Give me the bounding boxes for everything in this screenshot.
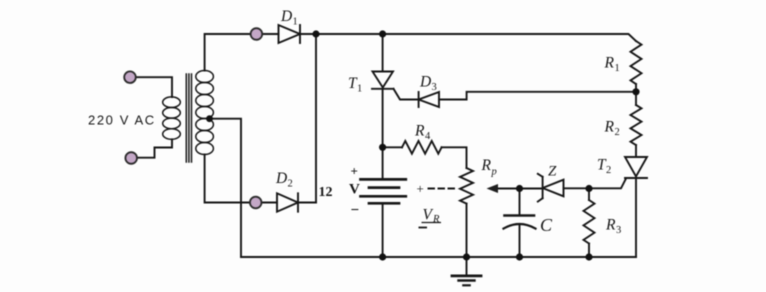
wire D3 anode to R1-R2 junction (439, 92, 636, 100)
label D2 (275, 170, 293, 190)
label 12 V battery (319, 164, 361, 219)
svg-text:2: 2 (615, 127, 620, 138)
svg-text:4: 4 (425, 131, 431, 142)
wire secondary bottom to D2 anode node (205, 155, 250, 203)
wire D2 node to anode (262, 202, 278, 204)
terminal node AC bottom (125, 152, 137, 164)
junction node rail C (516, 253, 523, 260)
svg-text:+: + (351, 164, 358, 179)
potentiometer wiper dashed line and plus (429, 188, 455, 190)
resistor R1 (631, 41, 642, 84)
label R3 (605, 217, 621, 237)
wire primary top terminal to winding (136, 77, 172, 97)
terminal node AC top (124, 71, 136, 83)
wire top rail from transformer secondary top to D1 anode (205, 34, 279, 71)
svg-text:1: 1 (357, 84, 362, 95)
capacitor C (504, 216, 536, 229)
svg-text:12: 12 (319, 185, 333, 200)
wire T1 anode vertical from top rail (382, 34, 384, 72)
wire C bottom stem (519, 224, 521, 257)
node D2 anode (250, 197, 262, 209)
junction node rail battery (379, 253, 386, 260)
wire T1 gate to D3 cathode (394, 89, 419, 100)
svg-text:R: R (604, 55, 615, 72)
svg-text:p: p (491, 167, 497, 178)
label D3 (419, 74, 437, 94)
label D1 (280, 8, 298, 28)
svg-text:C: C (540, 215, 553, 235)
transformer primary winding (163, 97, 181, 139)
wire battery minus down to bottom rail (382, 205, 384, 257)
svg-text:V: V (423, 207, 434, 224)
node D1 anode (251, 28, 263, 40)
junction node C top (516, 185, 523, 192)
label R4 (414, 123, 431, 143)
label T2 (597, 157, 611, 177)
wire R2 bottom to T2 anode (635, 145, 637, 157)
wire T2 cathode down to bottom rail (635, 178, 637, 257)
svg-text:Z: Z (548, 164, 557, 180)
wire R3 bottom stem (588, 244, 590, 258)
wire transformer center tap to bottom rail (210, 119, 242, 257)
wire top rail from D1 cathode to R1 top (300, 34, 636, 41)
transformer core (186, 74, 191, 162)
junction node rail R3 (585, 253, 592, 260)
junction node top rail T1 (379, 30, 386, 37)
label VR minus (419, 227, 428, 229)
svg-text:R: R (414, 123, 425, 140)
junction node R4 tap (379, 144, 386, 151)
resistor R3 (584, 200, 595, 243)
wire battery tap to R4 left (383, 146, 402, 148)
svg-text:2: 2 (606, 165, 611, 176)
svg-text:3: 3 (616, 225, 621, 236)
wire R1 bottom to R2 top through junction (635, 84, 637, 105)
wire primary winding bottom to lower terminal (137, 139, 172, 157)
svg-text:220 V AC: 220 V AC (88, 113, 156, 128)
resistor R4 (402, 141, 442, 154)
label R2 (604, 119, 620, 139)
thyristor T2 (625, 157, 647, 178)
junction node R1 R2 (632, 88, 639, 95)
wire T1 cathode down to battery plus (382, 89, 384, 178)
junction node rail ground (463, 253, 470, 260)
svg-text:D: D (419, 74, 431, 91)
thyristor T1 (372, 72, 394, 89)
wire D2 cathode vertical up to top rail (315, 34, 317, 203)
svg-text:R: R (432, 214, 440, 225)
potentiometer wiper arrow (487, 184, 499, 193)
wire R4 right to Rp top (442, 147, 467, 168)
potentiometer Rp element (460, 168, 473, 204)
svg-text:1: 1 (615, 63, 620, 74)
wire D2 cathode to vertical (298, 202, 316, 204)
wire Rp bottom to bottom rail (466, 204, 468, 257)
svg-text:+: + (417, 181, 424, 196)
svg-text:−: − (351, 203, 360, 219)
zener diode Z (538, 174, 564, 202)
wire zener anode to T2 gate (564, 179, 627, 189)
ground (452, 257, 481, 285)
svg-text:1: 1 (293, 17, 298, 28)
svg-text:3: 3 (432, 82, 437, 93)
diode D1 (279, 25, 301, 43)
junction node center tap (206, 115, 213, 122)
wire C top stem (519, 189, 521, 215)
resistor R2 (631, 105, 642, 145)
junction node top rail D2 (312, 30, 319, 37)
label VR underline (422, 222, 442, 224)
label VR (423, 207, 441, 226)
label T1 (348, 75, 362, 95)
wire wiper arrow line to C junction and zener cathode (496, 188, 543, 190)
wire R3 top stem (588, 189, 590, 201)
diode D2 (277, 193, 298, 211)
svg-text:2: 2 (288, 179, 293, 190)
diode D3 (419, 92, 439, 107)
svg-text:D: D (280, 8, 292, 25)
label R1 (604, 55, 620, 75)
transformer secondary winding (196, 71, 214, 155)
wire bottom rail (241, 256, 636, 258)
svg-text:R: R (481, 157, 492, 174)
svg-text:R: R (605, 217, 616, 234)
svg-text:R: R (604, 119, 615, 136)
svg-text:D: D (275, 170, 287, 187)
junction node R3 top (585, 185, 592, 192)
label Rp (481, 157, 497, 178)
svg-text:V: V (349, 182, 360, 198)
battery 12V (361, 179, 406, 203)
